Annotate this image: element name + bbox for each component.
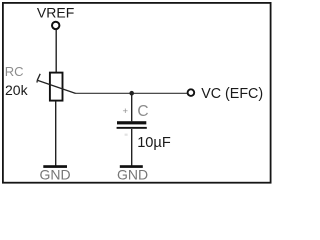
svg-text:VREF: VREF: [37, 4, 74, 20]
capacitor C top plate: [117, 121, 146, 124]
svg-text:VC (EFC): VC (EFC): [201, 86, 263, 102]
svg-text:RC: RC: [5, 64, 24, 79]
potentiometer wiper arrow: [37, 74, 76, 94]
svg-text:C: C: [137, 103, 148, 120]
ground bar left: [43, 165, 67, 168]
resistor RC body: [50, 73, 63, 101]
terminal VC: [188, 89, 195, 96]
border frame: [3, 3, 271, 183]
capacitor C bottom plate: [117, 127, 147, 129]
svg-text:GND: GND: [39, 166, 70, 182]
wire capacitor to ground: [131, 129, 133, 166]
svg-text:GND: GND: [117, 166, 148, 182]
svg-text:+: +: [123, 106, 129, 117]
wire VREF to resistor: [55, 30, 57, 72]
capacitor polarity minus faint: [125, 134, 128, 136]
svg-text:20k: 20k: [5, 82, 29, 98]
junction node: [129, 91, 134, 96]
wire junction to capacitor: [131, 93, 133, 121]
ground bar right: [120, 165, 143, 168]
svg-text:10µF: 10µF: [137, 135, 171, 151]
terminal VREF: [52, 22, 59, 29]
wire wiper to VC terminal: [75, 92, 187, 94]
wire resistor to ground: [55, 101, 57, 166]
